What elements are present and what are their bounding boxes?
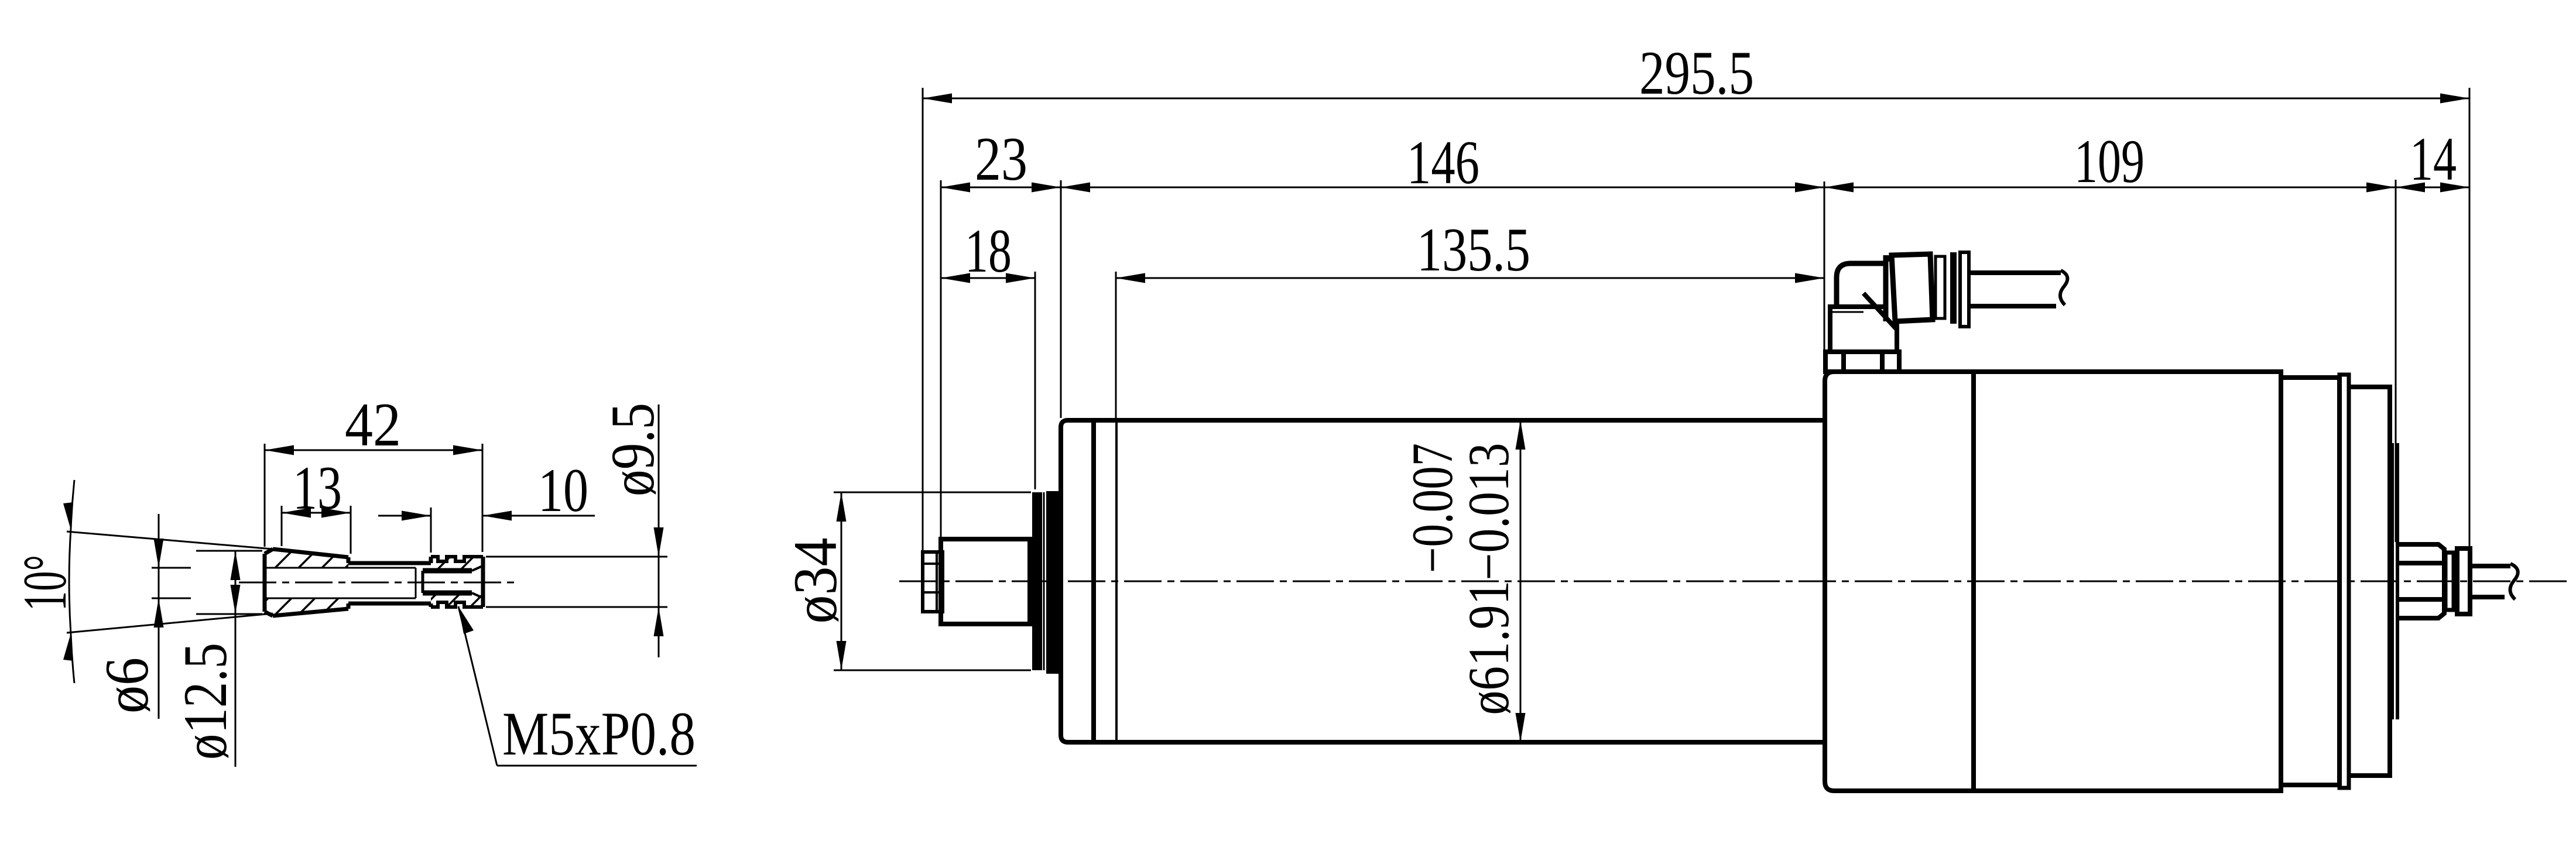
M5 thread top xyxy=(423,568,472,574)
motor body seam 1 xyxy=(1091,420,1096,742)
dim row2 ext housing face xyxy=(1824,181,1825,349)
front flange seam xyxy=(1043,492,1045,670)
dim phi61.91 line xyxy=(1520,420,1522,742)
hatch tip top band xyxy=(431,557,483,570)
svg-text:135.5: 135.5 xyxy=(1417,215,1530,284)
svg-text:146: 146 xyxy=(1407,128,1479,197)
dim 295.5 line xyxy=(923,98,2469,100)
spindle nose xyxy=(941,539,1030,624)
rear boss outline xyxy=(2396,544,2444,618)
svg-text:13: 13 xyxy=(293,454,342,522)
hatch tip bottom band xyxy=(431,594,483,607)
angular dim arc 10deg xyxy=(69,529,71,635)
hatch lower taper band xyxy=(265,598,348,616)
leader M5xP0.8 xyxy=(458,606,497,766)
collet tip top profile xyxy=(431,557,483,561)
collet taper edge bottom xyxy=(273,609,348,616)
collet taper edge top xyxy=(273,549,348,557)
connector ring 1 xyxy=(1936,256,1945,318)
dim 42 line xyxy=(265,450,482,451)
dim phi34 line xyxy=(841,492,842,670)
collet bore top line xyxy=(265,567,416,569)
hatch upper taper band xyxy=(265,549,348,568)
svg-text:ø9.5: ø9.5 xyxy=(598,403,667,496)
dim phi9.5 line xyxy=(658,404,660,657)
connector elbow upper body xyxy=(1837,263,1883,307)
motor body outline xyxy=(1061,420,1825,742)
dim row3 ext seam xyxy=(1115,272,1117,418)
svg-text:ø34: ø34 xyxy=(781,538,849,624)
connector nut flats xyxy=(1841,352,1846,372)
connector elbow lower right edge xyxy=(1895,321,1899,352)
connector elbow-barrel transition xyxy=(1883,256,1892,263)
svg-text:10°: 10° xyxy=(11,555,79,611)
collet neck top edge xyxy=(348,561,431,565)
rear gland ring 2 xyxy=(2457,548,2470,614)
dim row2 ext boss face xyxy=(2395,180,2397,542)
connector elbow step lines xyxy=(1828,304,1886,309)
rear boss flat lines xyxy=(2396,561,2444,565)
dim phi9.5 ext lines xyxy=(486,556,667,558)
rear cable break xyxy=(2510,564,2517,599)
detail view centerline xyxy=(239,582,515,584)
connector elbow face ring xyxy=(1883,255,1889,321)
main centerline xyxy=(899,581,2567,582)
dim 13 line xyxy=(282,512,351,514)
dim phi34 ext lines xyxy=(834,492,1031,493)
svg-text:ø6: ø6 xyxy=(93,657,161,714)
svg-text:109: 109 xyxy=(2074,127,2145,196)
svg-text:14: 14 xyxy=(2410,125,2457,193)
collet step at taper end xyxy=(347,557,351,563)
dim row3 ext flange face xyxy=(1034,272,1036,489)
collet chamfer top xyxy=(265,549,273,554)
rear housing outline xyxy=(1825,372,2281,791)
dim phi12.5 ext lines xyxy=(196,550,262,552)
dim phi6 line xyxy=(158,514,160,719)
svg-text:18: 18 xyxy=(965,217,1012,285)
dim row2 ext body face xyxy=(1060,180,1062,418)
dim 42 ext right xyxy=(482,444,484,552)
connector elbow lower left edge xyxy=(1828,307,1832,352)
dim 10 ext xyxy=(430,507,432,553)
dim 13 ext right xyxy=(350,506,352,554)
collet bore bottom line xyxy=(265,598,416,599)
M5 thread bottom xyxy=(423,591,472,596)
collet neck-to-tip step xyxy=(429,557,433,563)
connector elbow seam xyxy=(1864,293,1897,330)
dim 42 ext left xyxy=(264,444,266,547)
svg-text:10: 10 xyxy=(538,456,588,524)
dim 23 line xyxy=(941,187,1061,188)
construction line upper (cone angle) xyxy=(67,531,273,549)
rear gland ring 1 xyxy=(2445,553,2454,610)
motor body seam 2 xyxy=(1115,420,1118,742)
collet bore end xyxy=(415,568,417,598)
svg-text:23: 23 xyxy=(975,125,1027,193)
svg-text:ø12.5: ø12.5 xyxy=(171,643,239,760)
dim 295.5 ext left xyxy=(922,88,924,550)
svg-text:ø61.91−0.013: ø61.91−0.013 xyxy=(1456,443,1521,715)
dim 109 line xyxy=(1824,187,2396,188)
dim 135.5 line xyxy=(1116,277,1824,279)
svg-text:42: 42 xyxy=(345,390,401,459)
dim 10 line+arrows xyxy=(378,515,431,517)
connector ring 2 xyxy=(1950,252,1957,324)
rear housing seam xyxy=(1971,372,1976,791)
dim phi6 ext stubs xyxy=(152,567,191,569)
connector cable xyxy=(1969,270,2061,275)
construction line lower (cone angle) xyxy=(67,613,273,633)
svg-text:295.5: 295.5 xyxy=(1639,39,1754,107)
dim phi12.5 line xyxy=(235,551,237,767)
rear cable xyxy=(2470,564,2510,568)
dim 14 line xyxy=(2396,187,2469,188)
dim 18 line xyxy=(941,277,1035,279)
M5 countersink xyxy=(472,566,482,571)
collet neck bottom edge xyxy=(348,602,431,606)
connector cable break xyxy=(2060,270,2067,305)
rear end cap xyxy=(2349,387,2390,776)
front collet tip lines xyxy=(923,563,943,565)
front flange ring B xyxy=(1046,491,1060,674)
svg-text:M5xP0.8: M5xP0.8 xyxy=(502,699,696,768)
front collet tip xyxy=(923,552,943,612)
collet tip face xyxy=(481,557,485,607)
collet chamfer bottom xyxy=(265,612,273,616)
rear section B xyxy=(2281,378,2339,785)
dim 295.5 ext right xyxy=(2469,88,2471,546)
collet big end face xyxy=(263,554,267,612)
svg-text:−0.007: −0.007 xyxy=(1400,443,1465,573)
dim 146 line xyxy=(1061,187,1824,188)
dim 13 ext left xyxy=(281,506,283,546)
dim row2 ext nose face xyxy=(940,180,942,537)
rear inset plate xyxy=(2390,443,2394,719)
connector nut xyxy=(1825,352,1899,372)
M5 thread bottom-of-hole xyxy=(422,571,424,593)
collet tip bottom profile xyxy=(431,602,483,607)
connector flange xyxy=(1960,252,1969,327)
rear plate ring xyxy=(2339,375,2349,788)
connector barrel xyxy=(1892,254,1933,321)
front flange ring A xyxy=(1032,492,1042,670)
